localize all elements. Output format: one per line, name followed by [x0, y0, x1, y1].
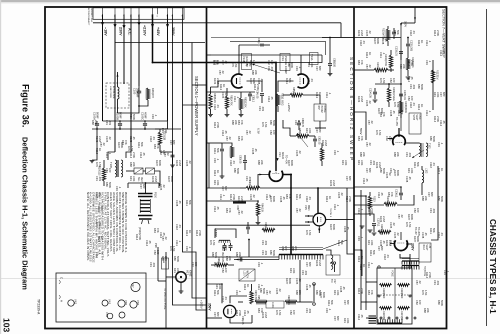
svg-text:2.2M: 2.2M: [178, 160, 182, 166]
resistor R97: [250, 291, 253, 304]
interlock dashed box: [106, 83, 129, 108]
svg-text:.003: .003: [152, 262, 156, 268]
svg-text:820K: 820K: [272, 196, 276, 202]
capacitor C101: [392, 32, 396, 34]
junction y284: [221, 283, 223, 285]
svg-text:3.9K: 3.9K: [370, 240, 374, 246]
svg-text:103: 103: [2, 318, 12, 332]
yoke resistor R118: [380, 284, 392, 287]
wire y37 long: [211, 37, 354, 39]
svg-text:TO PIN 5: TO PIN 5: [329, 208, 331, 218]
svg-text:.25: .25: [424, 232, 428, 236]
resistor R89: [296, 134, 309, 137]
svg-text:.05: .05: [442, 50, 446, 54]
svg-text:100: 100: [156, 250, 160, 255]
svg-text:.02: .02: [392, 222, 396, 226]
svg-text:100: 100: [418, 300, 422, 305]
svg-text:3.9K: 3.9K: [346, 318, 350, 324]
wire flyback right link: [323, 240, 347, 249]
wire pin +210V: [130, 14, 132, 152]
coil L100 hatch: [219, 239, 230, 241]
svg-text:C: C: [60, 277, 64, 279]
svg-text:560K: 560K: [236, 168, 240, 174]
svg-text:560K: 560K: [318, 290, 322, 296]
svg-text:2.2M: 2.2M: [318, 260, 322, 266]
svg-text:.05: .05: [148, 240, 152, 244]
svg-text:C104|.05: C104|.05: [369, 88, 372, 98]
svg-text:1.5K: 1.5K: [216, 262, 220, 268]
svg-text:V13A: V13A: [310, 54, 314, 61]
svg-text:R99|470: R99|470: [151, 88, 155, 98]
capacitor C89: [297, 123, 301, 125]
arrow +210V: [137, 22, 140, 26]
svg-text:.25: .25: [342, 286, 346, 290]
box V15B label: [409, 113, 421, 134]
svg-text:2.2M: 2.2M: [98, 136, 102, 142]
svg-text:.003: .003: [408, 152, 412, 158]
svg-text:560K: 560K: [290, 62, 294, 68]
wire y259 link: [234, 259, 279, 261]
svg-text:SEL: SEL: [137, 177, 139, 182]
wire bus y188: [207, 187, 241, 189]
svg-text:2.2M: 2.2M: [360, 30, 364, 36]
svg-text:270K: 270K: [132, 152, 136, 158]
tube V13B: [231, 74, 242, 88]
svg-text:1K: 1K: [188, 230, 192, 233]
bus filter line: [92, 128, 181, 130]
svg-text:270K: 270K: [348, 196, 352, 202]
svg-text:22K: 22K: [260, 160, 264, 165]
svg-text:C92|.05: C92|.05: [318, 136, 321, 145]
svg-text:.04: .04: [412, 30, 416, 34]
svg-text:.04: .04: [152, 136, 156, 140]
svg-text:2.2M: 2.2M: [360, 96, 364, 102]
svg-text:+210V: +210V: [143, 25, 147, 36]
capacitor C100C: [143, 124, 147, 125]
resistor R103: [389, 55, 392, 68]
wire yoke entry: [354, 250, 362, 276]
svg-text:R118|560: R118|560: [382, 288, 385, 299]
resistor R115: [378, 230, 391, 233]
resistor R101: [386, 29, 389, 41]
resistor R117: [431, 70, 434, 83]
resistor R105: [406, 58, 409, 70]
width coil box: [239, 269, 255, 281]
svg-text:560K: 560K: [440, 300, 444, 306]
svg-text:1.5K: 1.5K: [172, 246, 176, 252]
svg-text:WIDTH: WIDTH: [246, 271, 248, 279]
wire R87 leads: [319, 95, 321, 104]
capacitor C95B: [229, 246, 233, 248]
svg-text:TO|YOKE: TO|YOKE: [423, 266, 425, 277]
wire v438: [431, 166, 438, 240]
svg-text:270K: 270K: [216, 122, 220, 128]
svg-text:1.5K: 1.5K: [234, 62, 238, 68]
wire V14 cathode heavy: [283, 175, 291, 255]
wire pin 350V: [167, 14, 169, 121]
resistor R102L: [158, 132, 161, 145]
wire v433 top: [432, 60, 434, 110]
svg-text:270K: 270K: [198, 230, 202, 236]
svg-text:.003: .003: [304, 270, 308, 276]
svg-text:3.9K: 3.9K: [132, 176, 136, 182]
svg-text:56K: 56K: [188, 200, 192, 205]
svg-text:R121|56: R121|56: [400, 311, 403, 321]
tube V17 circle chart: [131, 282, 140, 291]
capacitor C100B: [118, 124, 122, 125]
svg-text:80MF: 80MF: [95, 112, 99, 119]
wire vert top terminal: [400, 23, 402, 26]
svg-text:.02: .02: [240, 210, 244, 214]
svg-text:22K: 22K: [294, 246, 298, 251]
wire mid col row y92: [207, 91, 256, 93]
svg-text:VN5: VN5: [124, 300, 128, 306]
svg-text:47K: 47K: [260, 308, 264, 313]
wire V16B plate heavy: [400, 232, 402, 240]
wire V13B cathode: [211, 81, 232, 87]
box R87 HORIZ DRIVE: [314, 104, 326, 121]
yoke box: [377, 268, 412, 324]
wire top entry v415: [414, 7, 416, 23]
svg-text:56K: 56K: [216, 290, 220, 295]
svg-text:6.3V: 6.3V: [257, 128, 261, 134]
svg-text:.02: .02: [224, 92, 228, 96]
vert output transformer T103b: [402, 265, 419, 267]
svg-text:VN6: VN6: [136, 300, 140, 306]
svg-text:.02: .02: [278, 288, 282, 292]
svg-text:R97|470K: R97|470K: [254, 290, 257, 301]
svg-text:.02: .02: [268, 290, 272, 294]
svg-text:.25: .25: [346, 226, 350, 230]
svg-text:680: 680: [380, 246, 384, 251]
box V13 label: [280, 54, 290, 71]
svg-text:270K: 270K: [232, 194, 236, 200]
transformer T100 secondary: [121, 160, 123, 177]
svg-text:820K: 820K: [332, 224, 336, 230]
svg-text:A: A: [60, 300, 64, 302]
svg-text:56K: 56K: [216, 148, 220, 153]
tube VN4 circle: [107, 313, 113, 319]
svg-text:350V: 350V: [208, 303, 212, 311]
ground R81: [225, 115, 230, 117]
schematic border frame: [45, 7, 447, 329]
svg-text:P100: P100: [154, 192, 157, 198]
svg-text:TO−8V: TO−8V: [414, 227, 417, 235]
svg-text:V17: V17: [131, 283, 135, 288]
yoke pin circles: [380, 317, 382, 319]
electrolytic C95 bar: [233, 201, 246, 203]
box V13A label: [310, 53, 319, 65]
svg-text:V15B: V15B: [412, 115, 414, 121]
svg-text:.02: .02: [298, 278, 302, 282]
page edge shading left: [0, 0, 1, 334]
tube V17 kine socket: [176, 272, 186, 282]
svg-text:+265V: +265V: [200, 300, 204, 309]
tube location box: [56, 273, 146, 322]
svg-text:YOKE: YOKE: [391, 270, 394, 277]
wire V15 plate heavy: [317, 188, 319, 213]
svg-text:56K: 56K: [298, 194, 302, 199]
svg-text:680: 680: [430, 192, 434, 197]
svg-text:40MF: 40MF: [143, 112, 147, 119]
arrow AC1: [122, 25, 125, 29]
svg-text:.04: .04: [412, 102, 416, 106]
wire v249: [248, 240, 250, 258]
svg-text:.003: .003: [264, 250, 268, 256]
svg-text:.003: .003: [308, 308, 312, 314]
svg-text:VERT: VERT: [415, 115, 417, 122]
svg-text:3.9K: 3.9K: [344, 160, 348, 166]
wire loop 130V: [215, 229, 236, 238]
svg-text:C83|.1: C83|.1: [252, 95, 255, 103]
svg-text:R119|560: R119|560: [400, 288, 403, 299]
wire long interconnect B: [183, 14, 207, 310]
svg-text:100: 100: [108, 168, 112, 173]
svg-text:680: 680: [336, 316, 340, 321]
svg-text:TO PIN 11 OF YOKE: TO PIN 11 OF YOKE: [163, 288, 165, 310]
svg-text:.02: .02: [166, 152, 170, 156]
svg-text:.02: .02: [368, 100, 372, 104]
svg-text:R108|150K: R108|150K: [404, 101, 407, 113]
svg-text:560K: 560K: [132, 114, 136, 120]
svg-text:R101|18: R101|18: [163, 131, 166, 141]
wire V13A plate: [300, 55, 302, 74]
svg-text:1K: 1K: [98, 148, 102, 151]
svg-text:350V: 350V: [171, 27, 175, 36]
svg-text:270K: 270K: [370, 208, 374, 214]
resistor R100: [102, 168, 105, 181]
svg-text:1K: 1K: [318, 92, 322, 95]
capacitor C88: [328, 64, 332, 66]
svg-text:.04: .04: [216, 104, 220, 108]
capacitor C84: [260, 94, 264, 96]
svg-text:.003: .003: [264, 240, 268, 246]
resistor R81: [225, 96, 228, 109]
svg-text:47K: 47K: [124, 140, 128, 145]
svg-text:1.5K: 1.5K: [98, 162, 102, 168]
AC plug P100: [138, 194, 153, 197]
wire cross link: [192, 43, 207, 299]
coil L102: [422, 170, 424, 183]
svg-text:1.5K: 1.5K: [408, 222, 412, 228]
svg-text:.02: .02: [418, 280, 422, 284]
ground bus: [90, 161, 95, 163]
svg-text:3.9K: 3.9K: [176, 268, 180, 274]
capacitor C105b: [399, 94, 403, 96]
wire plate bus y55: [211, 54, 322, 56]
wire right col row3: [354, 214, 374, 222]
svg-text:.02: .02: [388, 172, 392, 176]
wire V16 plate: [230, 296, 247, 303]
svg-text:1.5K: 1.5K: [424, 290, 428, 296]
svg-text:.25: .25: [260, 78, 264, 82]
svg-text:.25: .25: [132, 136, 136, 140]
resistor R93: [262, 228, 275, 231]
svg-text:3.9K: 3.9K: [360, 160, 364, 166]
svg-text:R105|27K: R105|27K: [411, 57, 414, 68]
wire plate loop: [230, 42, 326, 55]
svg-text:.003: .003: [270, 66, 274, 72]
svg-text:56K: 56K: [288, 78, 292, 83]
svg-text:.05: .05: [142, 152, 146, 156]
resistor R109: [384, 202, 397, 205]
svg-text:100: 100: [284, 246, 288, 251]
interconnect socket strip: [93, 8, 184, 19]
svg-text:680: 680: [318, 128, 322, 133]
svg-text:680: 680: [224, 186, 228, 191]
svg-text:47K: 47K: [228, 208, 232, 213]
flyback terminal: [333, 262, 335, 264]
svg-text:.02: .02: [228, 136, 232, 140]
yoke mid dashed: [377, 294, 412, 296]
svg-text:56K: 56K: [372, 250, 376, 255]
wire bus y201: [207, 200, 259, 202]
wire yoke left leads: [366, 281, 377, 283]
svg-text:.02: .02: [396, 232, 400, 236]
wire y37 link: [322, 37, 354, 39]
wire long v361: [360, 190, 362, 310]
svg-text:LINE CORD: LINE CORD: [109, 86, 111, 98]
socket pins: [102, 8, 104, 14]
svg-text:820K: 820K: [170, 176, 174, 182]
flyback T101 winding: [279, 254, 323, 256]
svg-text:680: 680: [318, 66, 322, 71]
svg-text:100: 100: [248, 62, 252, 67]
svg-text:22K: 22K: [164, 256, 168, 261]
wire V14 grid: [258, 175, 269, 189]
svg-text:R92|8.2K: R92|8.2K: [287, 295, 290, 305]
resistor R95: [255, 300, 267, 303]
yoke divider: [394, 268, 396, 324]
capacitor C104: [373, 92, 377, 94]
svg-text:Figure 36.: Figure 36.: [21, 84, 31, 127]
wire long interconnect A: [173, 14, 207, 305]
svg-text:INTERCONNECT: INTERCONNECT: [87, 8, 89, 26]
svg-text:56K: 56K: [330, 300, 334, 305]
svg-text:1K: 1K: [222, 84, 226, 87]
T103 core: [402, 258, 419, 260]
svg-text:1K: 1K: [328, 196, 332, 199]
wire damper cathode: [230, 319, 252, 323]
svg-text:WIRING SHOWN IS FOR CHASSIS H-: WIRING SHOWN IS FOR CHASSIS H-1.: [124, 192, 128, 253]
svg-text:.25: .25: [282, 196, 286, 200]
svg-text:INTERLOCK: INTERLOCK: [112, 86, 114, 99]
wire y55 left stub: [207, 54, 212, 56]
resistor R98: [162, 258, 169, 269]
wire V16B cathode to yoke: [409, 254, 411, 266]
svg-text:C105|.01: C105|.01: [403, 90, 406, 100]
svg-text:2.2M: 2.2M: [154, 176, 158, 182]
yoke resistor R121: [398, 307, 410, 310]
resistor R85: [290, 93, 303, 96]
svg-text:22K: 22K: [238, 252, 242, 257]
svg-text:.04: .04: [362, 40, 366, 44]
svg-text:R109|6.8K: R109|6.8K: [386, 196, 389, 208]
wire P98 drop: [157, 247, 159, 281]
svg-text:22K: 22K: [298, 290, 302, 295]
wire plug leads: [145, 183, 147, 193]
wire y37 right column: [354, 37, 401, 39]
ground cluster: [220, 176, 225, 178]
svg-text:C81|.01: C81|.01: [257, 38, 260, 47]
svg-text:1.5K: 1.5K: [382, 78, 386, 84]
wire left drop: [354, 112, 366, 140]
wire grid link V13: [247, 81, 263, 92]
wire v314: [313, 284, 315, 302]
resistor R82: [239, 98, 242, 110]
hv rect box: [326, 255, 340, 275]
flyback core: [279, 248, 323, 250]
wire pin -18V: [102, 14, 104, 121]
svg-text:1K: 1K: [368, 52, 372, 55]
selenium rectifier SR1: [134, 168, 143, 174]
wire h y143: [207, 142, 223, 144]
wire right col row1: [354, 195, 366, 197]
svg-text:230V: 230V: [119, 27, 123, 36]
svg-text:1.5K: 1.5K: [308, 230, 312, 236]
wire bottom links: [238, 301, 243, 303]
box R112 VERT LIN: [419, 243, 431, 262]
svg-text:820K: 820K: [290, 160, 294, 166]
svg-text:820K: 820K: [396, 170, 400, 176]
svg-text:R80|8.2K: R80|8.2K: [213, 93, 216, 103]
svg-text:HORIZ: HORIZ: [320, 106, 322, 114]
svg-text:270K: 270K: [436, 30, 440, 36]
wire V14 plate heavy: [275, 168, 277, 171]
svg-text:.02: .02: [108, 136, 112, 140]
wire 415 link: [401, 22, 415, 24]
svg-text:2.2M: 2.2M: [388, 240, 392, 246]
tube V13A: [297, 74, 308, 88]
arrow diag mid: [297, 133, 308, 147]
svg-text:.003: .003: [261, 106, 265, 112]
svg-text:R117|1M: R117|1M: [436, 70, 439, 79]
svg-text:.003: .003: [432, 208, 436, 214]
svg-text:.04: .04: [440, 232, 444, 236]
svg-text:P98: P98: [154, 243, 158, 248]
svg-text:100: 100: [392, 78, 396, 83]
wire mid y225: [207, 224, 311, 226]
resistor R108: [399, 101, 402, 113]
svg-text:47K: 47K: [370, 290, 374, 295]
svg-text:100: 100: [224, 268, 228, 273]
svg-text:820K: 820K: [120, 142, 124, 148]
svg-text:560K: 560K: [272, 120, 276, 126]
svg-text:L102: L102: [425, 168, 428, 174]
svg-text:56K: 56K: [416, 162, 420, 167]
svg-text:CHASSIS TYPES 81, H-1: CHASSIS TYPES 81, H-1: [488, 219, 497, 314]
svg-text:47K: 47K: [360, 136, 364, 141]
svg-text:.04: .04: [232, 160, 236, 164]
transformer T100 core: [117, 160, 118, 177]
svg-text:.02: .02: [370, 120, 374, 124]
svg-text:.25: .25: [178, 200, 182, 204]
right margin rule: [486, 9, 488, 326]
svg-text:56K: 56K: [140, 142, 144, 147]
wire mid left v209: [208, 143, 210, 188]
svg-text:820K: 820K: [322, 292, 326, 298]
svg-text:100: 100: [272, 130, 276, 135]
svg-text:820K: 820K: [158, 160, 162, 166]
svg-text:.02: .02: [400, 214, 404, 218]
wire horiz links top mid: [239, 44, 258, 46]
svg-text:R100|10: R100|10: [98, 166, 101, 176]
scan artifact line: [0, 278, 500, 280]
pointer line V13: [252, 64, 280, 73]
tube V15: [313, 213, 326, 226]
section divider line (horiz/vert): [353, 7, 355, 329]
capacitor C83: [248, 94, 252, 96]
